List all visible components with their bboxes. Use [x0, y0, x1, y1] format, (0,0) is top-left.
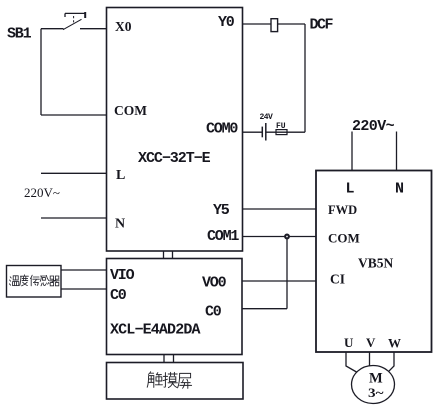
wire 220V to N inverter — [396, 132, 398, 171]
wire VO0 to CI — [242, 280, 316, 282]
svg-text:XCC−32T−E: XCC−32T−E — [138, 150, 211, 167]
wire temp sensor to C0 — [61, 288, 107, 290]
fuse FU — [276, 130, 287, 135]
svg-text:W: W — [388, 336, 401, 351]
pushbutton SB1 dashed link — [73, 16, 75, 24]
glyph ping — [178, 373, 192, 388]
svg-text:N: N — [115, 217, 125, 232]
pushbutton SB1 actuator right tick — [84, 12, 86, 18]
svg-text:220V~: 220V~ — [24, 185, 60, 200]
pushbutton SB1 actuator left tick — [64, 13, 66, 17]
wire X0 right segment — [80, 28, 107, 30]
svg-text:VIO: VIO — [110, 267, 135, 284]
glyph wen — [9, 277, 11, 285]
svg-text:DCF: DCF — [310, 17, 334, 34]
svg-text:COM1: COM1 — [207, 228, 239, 245]
chinese label chu-mo-ping (touch screen) — [147, 372, 191, 389]
glyph chu — [147, 372, 162, 388]
glyph chuan — [30, 275, 39, 286]
expansion module block XCL-E4AD2DA — [107, 259, 243, 355]
svg-text:COM: COM — [328, 231, 360, 246]
svg-text:FU: FU — [276, 122, 286, 131]
wire 220V to L inverter — [351, 132, 353, 171]
svg-text:V: V — [366, 335, 376, 350]
pushbutton SB1 blade — [63, 19, 82, 29]
svg-text:XCL−E4AD2DA: XCL−E4AD2DA — [110, 322, 201, 339]
wire Y0 to relay coil — [243, 23, 272, 25]
svg-text:X0: X0 — [115, 19, 132, 34]
inverter block VB5N — [316, 171, 432, 353]
wire L — [41, 172, 107, 174]
svg-text:C0: C0 — [205, 304, 222, 321]
svg-text:C0: C0 — [110, 287, 127, 304]
svg-text:COM: COM — [114, 103, 147, 118]
wire coil to corner — [278, 23, 305, 25]
motor M circle — [352, 366, 395, 404]
svg-text:L: L — [346, 181, 355, 198]
svg-text:N: N — [395, 181, 404, 198]
chinese label wen-du-chuan-gan-qi (temperature sensor) — [9, 275, 59, 286]
relay coil DCF — [271, 19, 278, 32]
glyph du — [20, 275, 29, 286]
svg-text:COM0: COM0 — [206, 121, 238, 138]
touch screen block — [107, 363, 244, 400]
svg-text:3~: 3~ — [368, 386, 384, 400]
svg-text:VO0: VO0 — [202, 275, 227, 292]
glyph gan — [40, 275, 49, 285]
glyph qi — [50, 276, 60, 286]
pushbutton SB1 actuator bar — [65, 12, 85, 14]
svg-text:220V~: 220V~ — [352, 118, 395, 135]
junction node — [285, 235, 289, 239]
wire COM — [41, 114, 107, 116]
wire W to motor — [389, 352, 395, 372]
battery 24V short plate — [261, 127, 263, 138]
svg-text:FWD: FWD — [328, 203, 357, 217]
temperature sensor block — [7, 266, 62, 298]
glyph mo — [163, 372, 177, 387]
svg-text:VB5N: VB5N — [358, 256, 394, 271]
svg-text:Y0: Y0 — [218, 14, 235, 31]
wire temp sensor to VIO — [61, 269, 107, 271]
expansion bus ticks lower — [164, 355, 174, 363]
wire battery to fuse — [266, 131, 305, 133]
wire C0 to branch — [242, 308, 287, 310]
svg-text:L: L — [116, 168, 125, 183]
wire DCF vertical — [304, 24, 306, 132]
wire COM0 to battery — [243, 131, 263, 133]
wire X0 left segment — [41, 28, 64, 30]
svg-text:CI: CI — [330, 272, 345, 287]
svg-text:24V: 24V — [260, 113, 274, 122]
wire branch vertical — [286, 237, 288, 309]
wire U to motor — [346, 352, 357, 372]
svg-text:U: U — [344, 335, 354, 350]
svg-text:Y5: Y5 — [213, 202, 230, 219]
wire N — [41, 217, 107, 219]
expansion bus ticks upper — [164, 251, 173, 259]
PLC block XCC-32T-E — [107, 8, 243, 252]
wire Y5 to FWD — [243, 208, 317, 210]
wire COM1 to COM — [243, 236, 317, 238]
wire V to motor — [369, 352, 371, 366]
wire SB1 down leg — [40, 29, 42, 115]
svg-text:SB1: SB1 — [7, 26, 32, 43]
svg-text:M: M — [369, 371, 383, 387]
battery 24V long plate — [265, 123, 267, 141]
